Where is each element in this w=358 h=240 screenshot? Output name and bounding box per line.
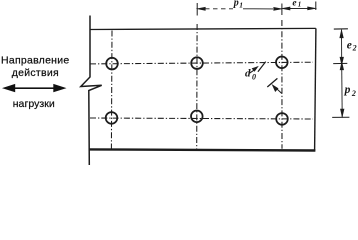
- svg-text:p: p: [233, 0, 239, 9]
- svg-text:нагрузки: нагрузки: [13, 98, 55, 110]
- svg-text:p: p: [344, 84, 351, 96]
- svg-text:1: 1: [239, 1, 243, 10]
- svg-text:2: 2: [351, 89, 356, 98]
- svg-text:e: e: [292, 0, 297, 8]
- svg-text:Направление: Направление: [1, 55, 69, 67]
- svg-text:e: e: [347, 40, 352, 52]
- svg-text:0: 0: [252, 73, 256, 82]
- svg-text:1: 1: [298, 1, 302, 9]
- svg-text:2: 2: [352, 44, 357, 53]
- svg-text:d: d: [245, 68, 251, 80]
- svg-text:действия: действия: [12, 67, 59, 79]
